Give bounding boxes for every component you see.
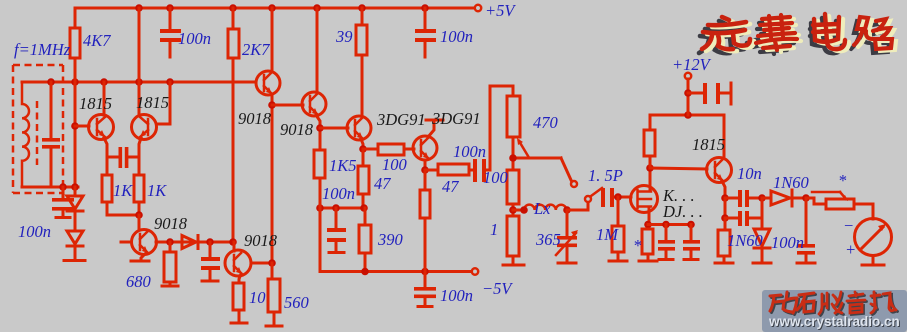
resistor 2K7 bbox=[232, 8, 235, 29]
capacitor 100n coupling mid bbox=[469, 169, 473, 172]
transistor Q7 9018 bbox=[132, 230, 157, 255]
wire Q6 collector stub bbox=[428, 121, 434, 137]
svg-text:1815: 1815 bbox=[136, 93, 169, 112]
svg-text:Lx: Lx bbox=[533, 199, 551, 218]
resistor 4K7 bbox=[74, 8, 77, 28]
resistor 1 vertical bbox=[507, 216, 519, 256]
svg-text:1M: 1M bbox=[596, 225, 619, 244]
transistor Q6 3DG91 bbox=[413, 136, 437, 160]
node +5V terminal bbox=[475, 5, 481, 11]
svg-text:*: * bbox=[838, 171, 847, 190]
svg-text:100n: 100n bbox=[771, 233, 804, 252]
svg-text:100n: 100n bbox=[440, 27, 473, 46]
logo plaque bbox=[762, 290, 907, 332]
resistor 560 bbox=[271, 263, 274, 279]
core dashed bbox=[36, 101, 39, 165]
svg-text:100n: 100n bbox=[322, 184, 355, 203]
wire FET drain bbox=[649, 168, 652, 190]
wire Q2 emitter bbox=[139, 138, 141, 175]
resistor 1K5 bbox=[314, 150, 325, 178]
svg-text:+: + bbox=[845, 240, 856, 259]
svg-text:47: 47 bbox=[442, 177, 459, 196]
svg-text:2K7: 2K7 bbox=[242, 40, 270, 59]
wire wiper row bbox=[513, 157, 561, 160]
resistor 47 horizontal bbox=[425, 169, 438, 172]
wire Q1 collector bbox=[103, 82, 106, 115]
capacitor +12V decouple bbox=[684, 89, 692, 97]
wire Q9 base bbox=[233, 242, 236, 251]
capacitor C-couple Q1Q2 bbox=[119, 147, 123, 168]
wire +5V top rail bbox=[75, 7, 474, 10]
wire 1K5 node row bbox=[320, 207, 365, 210]
svg-text:−: − bbox=[843, 216, 854, 235]
resistor under Q8 bbox=[724, 218, 727, 230]
svg-text:10n: 10n bbox=[737, 164, 762, 183]
svg-text:f=1MHz: f=1MHz bbox=[14, 40, 71, 59]
tank dashed box bbox=[13, 65, 63, 193]
svg-text:1815: 1815 bbox=[79, 94, 112, 113]
diode D4 1N60 horizontal bbox=[762, 197, 771, 200]
wire Q5 base bbox=[320, 127, 348, 130]
svg-text:100n: 100n bbox=[440, 286, 473, 305]
svg-text:−5V: −5V bbox=[482, 279, 513, 298]
wire 1K join bbox=[107, 214, 139, 217]
wire Q2 base L-link bbox=[157, 82, 170, 124]
meter M1 bbox=[855, 219, 892, 256]
capacitor 100n bottom center bbox=[424, 272, 427, 288]
svg-text:47: 47 bbox=[374, 174, 391, 193]
svg-text:1815: 1815 bbox=[692, 135, 725, 154]
resistor 680 bbox=[169, 242, 172, 252]
transistor Q9 9018 bbox=[225, 250, 251, 276]
svg-text:1. 5P: 1. 5P bbox=[588, 166, 623, 185]
svg-text:1N60: 1N60 bbox=[727, 231, 764, 250]
wire Q6 emitter node bbox=[424, 160, 427, 170]
wire Q4 emitter bbox=[316, 115, 320, 150]
diode D2 bbox=[74, 211, 77, 231]
svg-text:9018: 9018 bbox=[238, 109, 272, 128]
svg-text:100: 100 bbox=[382, 155, 408, 174]
capacitor tank cap bbox=[50, 82, 53, 138]
resistor source R bbox=[642, 229, 653, 254]
wire tank bottom bbox=[22, 186, 78, 189]
wire Q8 base bbox=[650, 168, 707, 169]
wire -5V rail bbox=[320, 208, 471, 272]
svg-text:470: 470 bbox=[533, 113, 559, 132]
svg-text:680: 680 bbox=[126, 272, 152, 291]
capacitor 1.5P bbox=[601, 188, 605, 207]
diode D3 bbox=[182, 236, 196, 249]
capacitor 100n tank bottom bbox=[62, 187, 65, 198]
capacitor 365 variable bbox=[566, 210, 569, 236]
resistor 390 bbox=[359, 225, 371, 253]
svg-text:9018: 9018 bbox=[280, 120, 314, 139]
svg-text:9018: 9018 bbox=[244, 231, 278, 250]
wire Q8 emitter bbox=[722, 181, 725, 198]
wire Q1 base bbox=[75, 125, 89, 128]
inductor L1 tank coil bbox=[22, 82, 29, 187]
capacitor 100n under rail #1 bbox=[169, 8, 172, 29]
wire Q9 collector bbox=[251, 262, 272, 265]
svg-text:1: 1 bbox=[490, 220, 498, 239]
node y82 junctions bbox=[47, 78, 55, 86]
wire lower branch bbox=[724, 198, 727, 218]
wire 4K7 column down to tank bottom bbox=[74, 82, 77, 187]
wire 470 pot loop bbox=[490, 86, 513, 170]
capacitor 100n det bbox=[805, 198, 808, 244]
resistor 1K right bbox=[134, 175, 144, 202]
resistor 10 bbox=[239, 274, 241, 283]
svg-text:100n: 100n bbox=[453, 142, 486, 161]
svg-text:39: 39 bbox=[335, 27, 353, 46]
transistor Q2 1815 bbox=[132, 115, 157, 140]
wire main y82 bus bbox=[22, 81, 256, 84]
wire Q3 collector bbox=[271, 8, 274, 72]
svg-text:+5V: +5V bbox=[485, 1, 516, 20]
svg-text:www.crystalradio.cn: www.crystalradio.cn bbox=[768, 314, 900, 329]
wire Q7 base stub bbox=[121, 241, 131, 244]
resistor 1K left bbox=[102, 175, 112, 202]
capacitor 100n det1 bbox=[209, 242, 212, 257]
svg-text:100: 100 bbox=[483, 168, 509, 187]
node Q1 base junction bbox=[71, 122, 79, 130]
capacitor source C2 bbox=[690, 225, 693, 241]
resistor Q8 load bbox=[649, 156, 652, 168]
transistor Q3 9018 bbox=[256, 71, 280, 95]
resistor 100 horizontal bbox=[363, 148, 378, 151]
potentiometer 470 bbox=[507, 96, 520, 137]
capacitor 10n bbox=[725, 197, 738, 200]
svg-text:4K7: 4K7 bbox=[83, 31, 111, 50]
wire to meter bbox=[854, 204, 873, 219]
wire Q7 output row bbox=[156, 241, 233, 244]
transistor Q4 9018 bbox=[302, 92, 326, 116]
svg-text:DJ. . .: DJ. . . bbox=[662, 202, 703, 221]
svg-text:100n: 100n bbox=[18, 222, 51, 241]
svg-text:*: * bbox=[633, 236, 642, 255]
svg-text:365: 365 bbox=[535, 230, 561, 249]
svg-text:3DG91: 3DG91 bbox=[376, 110, 426, 129]
wire Q8 top loop bbox=[650, 114, 724, 117]
svg-text:3DG91: 3DG91 bbox=[431, 109, 481, 128]
svg-text:9018: 9018 bbox=[154, 214, 188, 233]
switch contacts bbox=[561, 158, 571, 180]
capacitor source C1 bbox=[665, 225, 668, 241]
wire Q4 collector bbox=[316, 8, 319, 93]
transistor Q1 1815 bbox=[89, 115, 114, 140]
svg-text:1K: 1K bbox=[147, 181, 167, 200]
resistor 100 vertical bbox=[507, 170, 519, 204]
wire Q4 base bbox=[272, 104, 303, 107]
title 完整电路 bbox=[702, 14, 892, 50]
potentiometer meter * bbox=[806, 198, 826, 204]
transistor U1 mixer FET bbox=[631, 186, 658, 213]
svg-text:390: 390 bbox=[377, 230, 404, 249]
capacitor lower 10n bbox=[725, 217, 738, 220]
wire Q3 emitter down bbox=[271, 94, 274, 263]
wire Q1 emitter bbox=[104, 138, 107, 175]
transistor Q8 1815 bbox=[707, 158, 732, 183]
svg-text:10: 10 bbox=[249, 288, 266, 307]
resistor 39 bbox=[361, 8, 364, 25]
svg-text:100n: 100n bbox=[178, 29, 211, 48]
diode D5 1N60 vertical bbox=[754, 229, 770, 246]
svg-text:+12V: +12V bbox=[672, 55, 712, 74]
wire FET source bbox=[648, 208, 651, 225]
node top rail junctions bbox=[135, 4, 143, 12]
resistor Q6 emitter vertical bbox=[420, 190, 430, 218]
svg-text:1N60: 1N60 bbox=[773, 173, 810, 192]
capacitor 100n under 1K5 bbox=[335, 208, 338, 228]
svg-text:560: 560 bbox=[284, 293, 310, 312]
node -5V terminal bbox=[472, 268, 478, 274]
wire Q2 collector from rail bbox=[138, 8, 141, 114]
node +12V terminal bbox=[687, 79, 690, 115]
svg-text:1K5: 1K5 bbox=[329, 156, 357, 175]
wire source RC row bbox=[648, 223, 691, 226]
logo 矿石收音机 bbox=[770, 292, 896, 314]
capacitor 100n under rail #2 bbox=[424, 8, 427, 29]
wire Q8 collector bbox=[723, 115, 726, 158]
inductor Lx bbox=[513, 209, 524, 212]
resistor 1M bbox=[617, 197, 620, 226]
resistor 47 vertical bbox=[362, 149, 365, 166]
wire Q5 emitter node bbox=[361, 139, 363, 149]
wire Q7 emitter bbox=[141, 253, 146, 260]
diode D1 bbox=[74, 187, 77, 196]
wire Q7 collector bbox=[138, 215, 141, 230]
svg-text:1K: 1K bbox=[113, 181, 133, 200]
transistor Q5 3DG91 bbox=[347, 116, 371, 140]
